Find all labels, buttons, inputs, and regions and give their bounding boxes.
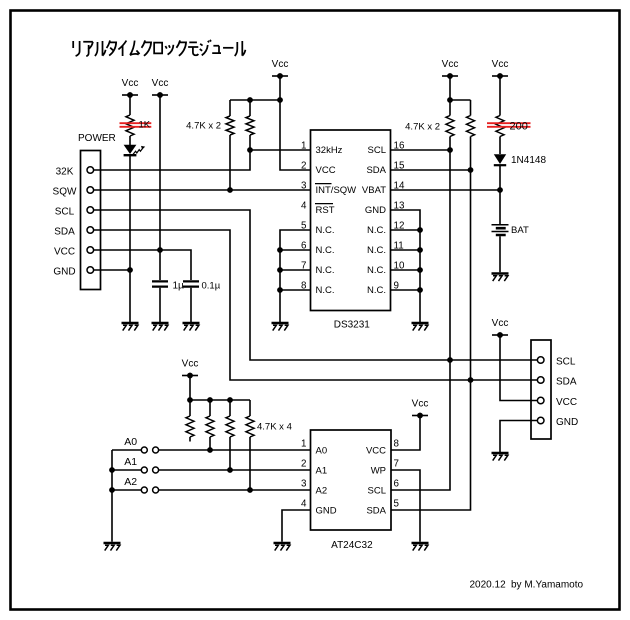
svg-text:GND: GND — [365, 205, 386, 216]
svg-text:6: 6 — [301, 240, 307, 251]
svg-text:SCL: SCL — [55, 206, 75, 217]
svg-text:Vcc: Vcc — [122, 78, 139, 89]
svg-text:N.C.: N.C. — [316, 245, 335, 256]
svg-text:VCC: VCC — [366, 445, 386, 456]
svg-text:N.C.: N.C. — [316, 285, 335, 296]
svg-text:4.7K x 4: 4.7K x 4 — [257, 422, 292, 433]
svg-text:A1: A1 — [316, 465, 328, 476]
svg-text:by M.Yamamoto: by M.Yamamoto — [511, 579, 583, 590]
svg-text:POWER: POWER — [78, 133, 116, 144]
svg-text:9: 9 — [394, 280, 399, 291]
svg-text:GND: GND — [53, 266, 75, 277]
svg-text:VCC: VCC — [54, 246, 75, 257]
svg-text:BAT: BAT — [511, 225, 529, 236]
svg-text:3: 3 — [301, 479, 307, 490]
svg-text:12: 12 — [394, 220, 405, 231]
svg-text:5: 5 — [301, 220, 307, 231]
svg-text:A2: A2 — [316, 485, 328, 496]
svg-text:INT/SQW: INT/SQW — [316, 185, 357, 196]
svg-text:32kHz: 32kHz — [316, 145, 343, 156]
svg-text:N.C.: N.C. — [367, 245, 386, 256]
svg-text:2020.12: 2020.12 — [470, 579, 507, 590]
svg-text:1µ: 1µ — [173, 281, 185, 292]
svg-text:SCL: SCL — [368, 145, 386, 156]
svg-text:4.7K x 2: 4.7K x 2 — [405, 122, 440, 133]
svg-text:Vcc: Vcc — [442, 59, 459, 70]
svg-text:200: 200 — [510, 120, 528, 132]
svg-text:SDA: SDA — [366, 505, 386, 516]
svg-text:N.C.: N.C. — [367, 225, 386, 236]
svg-text:WP: WP — [371, 465, 386, 476]
svg-text:6: 6 — [394, 479, 400, 490]
svg-text:5: 5 — [394, 499, 400, 510]
svg-text:Vcc: Vcc — [272, 59, 289, 70]
svg-text:1: 1 — [301, 439, 306, 450]
svg-text:32K: 32K — [56, 166, 74, 177]
svg-text:A0: A0 — [124, 436, 137, 448]
svg-text:SCL: SCL — [556, 356, 576, 367]
svg-text:1K: 1K — [139, 119, 151, 130]
svg-text:13: 13 — [394, 200, 405, 211]
svg-text:SDA: SDA — [54, 226, 75, 237]
svg-text:AT24C32: AT24C32 — [331, 540, 373, 551]
svg-text:Vcc: Vcc — [182, 359, 199, 370]
svg-text:N.C.: N.C. — [367, 265, 386, 276]
svg-text:14: 14 — [394, 180, 405, 191]
svg-text:A1: A1 — [124, 456, 137, 468]
svg-text:N.C.: N.C. — [367, 285, 386, 296]
svg-text:8: 8 — [394, 439, 400, 450]
svg-text:SDA: SDA — [366, 165, 386, 176]
svg-text:10: 10 — [394, 260, 405, 271]
svg-text:11: 11 — [394, 240, 404, 251]
svg-text:0.1µ: 0.1µ — [202, 281, 221, 292]
svg-text:SDA: SDA — [556, 377, 577, 388]
svg-text:DS3231: DS3231 — [334, 320, 371, 331]
svg-text:N.C.: N.C. — [316, 265, 335, 276]
svg-text:Vcc: Vcc — [412, 399, 429, 410]
svg-text:4: 4 — [301, 200, 307, 211]
svg-text:1: 1 — [301, 140, 306, 151]
svg-text:Vcc: Vcc — [152, 78, 169, 89]
svg-text:7: 7 — [394, 459, 399, 470]
svg-text:RST: RST — [316, 205, 335, 216]
svg-text:8: 8 — [301, 280, 307, 291]
svg-text:7: 7 — [301, 260, 306, 271]
svg-text:2: 2 — [301, 459, 306, 470]
svg-text:VCC: VCC — [556, 397, 577, 408]
svg-text:Vcc: Vcc — [492, 59, 509, 70]
svg-text:VBAT: VBAT — [362, 185, 386, 196]
svg-text:1N4148: 1N4148 — [511, 155, 546, 166]
svg-text:GND: GND — [556, 417, 578, 428]
svg-text:4: 4 — [301, 499, 307, 510]
svg-text:16: 16 — [394, 140, 405, 151]
svg-text:4.7K x 2: 4.7K x 2 — [186, 120, 221, 131]
svg-text:N.C.: N.C. — [316, 225, 335, 236]
svg-text:VCC: VCC — [316, 165, 336, 176]
svg-text:15: 15 — [394, 160, 405, 171]
svg-text:A2: A2 — [124, 476, 137, 488]
svg-text:SCL: SCL — [368, 485, 386, 496]
svg-text:3: 3 — [301, 180, 307, 191]
svg-text:Vcc: Vcc — [492, 318, 509, 329]
svg-text:GND: GND — [316, 505, 337, 516]
svg-text:2: 2 — [301, 160, 306, 171]
svg-text:A0: A0 — [316, 445, 328, 456]
svg-text:SQW: SQW — [53, 186, 77, 197]
